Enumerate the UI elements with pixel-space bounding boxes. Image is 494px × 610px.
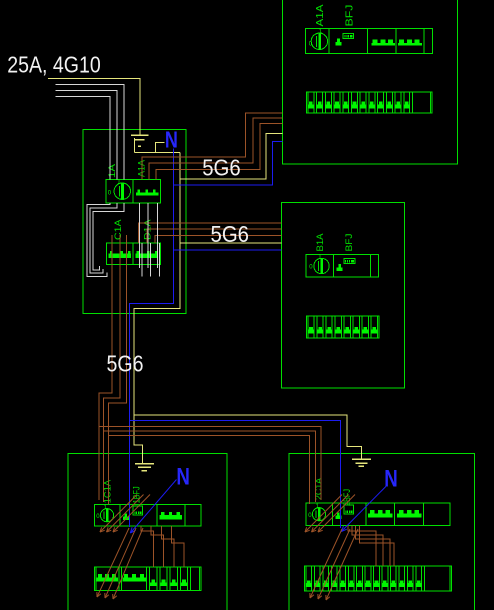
svg-text:N: N <box>165 126 178 152</box>
svg-text:B1A: B1A <box>315 233 326 252</box>
svg-text:5G6: 5G6 <box>107 351 144 377</box>
svg-text:A1A: A1A <box>315 4 326 26</box>
svg-text:5G6: 5G6 <box>211 221 250 247</box>
svg-text:2C1A: 2C1A <box>313 478 323 500</box>
svg-text:25A, 4G10: 25A, 4G10 <box>7 52 101 78</box>
svg-text:N: N <box>384 466 398 493</box>
svg-text:2BFJ: 2BFJ <box>342 489 352 506</box>
svg-text:BFJ: BFJ <box>344 233 355 251</box>
svg-text:N: N <box>176 463 190 490</box>
svg-text:C1A: C1A <box>113 219 124 240</box>
svg-text:BFJ: BFJ <box>344 5 355 27</box>
svg-text:5G6: 5G6 <box>202 154 241 180</box>
svg-text:1A: 1A <box>107 163 118 178</box>
